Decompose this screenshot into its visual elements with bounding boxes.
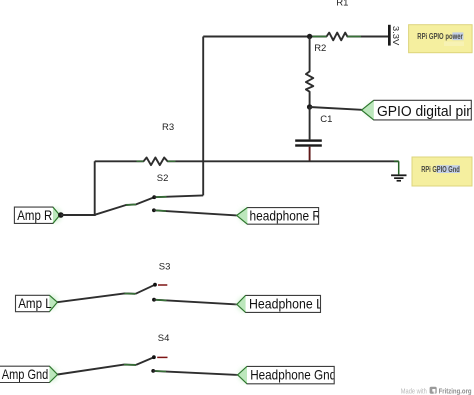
label C1 bbox=[320, 114, 332, 125]
svg-text:3.3V: 3.3V bbox=[391, 26, 401, 46]
resistor R2 bbox=[306, 37, 313, 108]
note RPi GPIO power bbox=[409, 25, 473, 53]
wire vertical mid net bbox=[202, 37, 204, 196]
wire joint green S4 lower lead bbox=[155, 370, 166, 373]
label R3 bbox=[162, 122, 174, 133]
label R2 bbox=[314, 43, 326, 54]
net flag Amp R bbox=[14, 207, 61, 223]
wire ground net horizontal with resistor R3 bbox=[95, 158, 399, 166]
svg-text:S4: S4 bbox=[158, 333, 170, 344]
wire joint green S2 lever bbox=[126, 203, 136, 206]
note RPi GPIO Gnd bbox=[412, 157, 472, 186]
wire Amp R to switch bbox=[61, 161, 95, 215]
svg-text:Headphone Gnd: Headphone Gnd bbox=[250, 368, 336, 383]
resistor R1 bbox=[310, 33, 389, 41]
power symbol 3.3V bbox=[388, 25, 401, 46]
svg-text:RPi GPIO Gnd: RPi GPIO Gnd bbox=[421, 165, 460, 174]
net flag headphone R bbox=[237, 208, 321, 225]
wire S2 upper contact to vertical net bbox=[154, 195, 203, 197]
wire Amp Gnd to switch bbox=[58, 365, 137, 375]
switch S2 bbox=[95, 195, 156, 215]
svg-text:Made with: Made with bbox=[401, 386, 427, 395]
wire to GPIO flag bbox=[310, 107, 362, 110]
junction node B bbox=[307, 104, 312, 109]
svg-text:R2: R2 bbox=[314, 43, 326, 54]
svg-text:RPi GPIO power: RPi GPIO power bbox=[417, 32, 463, 41]
svg-text:Fritzing.org: Fritzing.org bbox=[439, 386, 472, 395]
svg-text:R1: R1 bbox=[336, 0, 348, 8]
svg-text:S2: S2 bbox=[157, 173, 169, 184]
wire S3 lower contact to Headphone L bbox=[154, 300, 237, 305]
junction Amp R node bbox=[58, 212, 64, 218]
svg-text:Amp R: Amp R bbox=[17, 208, 52, 223]
wire joint green S4 lever flat bbox=[124, 364, 136, 366]
switch S4 bbox=[136, 355, 168, 372]
wire Amp L to switch bbox=[57, 293, 135, 302]
ground bbox=[391, 161, 406, 181]
watermark Made with fritzing.org bbox=[401, 386, 472, 395]
wire S2 lower contact to headphone R bbox=[154, 210, 237, 215]
svg-text:C1: C1 bbox=[320, 114, 332, 125]
wire joint green S2 lower lead bbox=[156, 209, 166, 212]
net flag Amp L bbox=[16, 295, 58, 312]
svg-text:Headphone L: Headphone L bbox=[249, 297, 323, 312]
wire top horizontal net bbox=[203, 36, 309, 38]
net flag Headphone L bbox=[237, 295, 323, 312]
wire joint green R3 left bbox=[137, 160, 144, 162]
svg-text:R3: R3 bbox=[162, 122, 174, 133]
net flag Amp Gnd bbox=[0, 366, 58, 382]
svg-text:headphone R: headphone R bbox=[250, 209, 322, 224]
net flag GPIO digital pin bbox=[362, 100, 474, 120]
svg-text:S3: S3 bbox=[159, 262, 171, 273]
wire joint green S3 lower lead bbox=[156, 299, 167, 302]
label S4 bbox=[158, 333, 170, 344]
capacitor C1 bbox=[295, 107, 322, 161]
svg-text:GPIO digital pin: GPIO digital pin bbox=[377, 103, 474, 120]
wire joint green R1 right bbox=[347, 36, 361, 38]
net flag Headphone Gnd bbox=[238, 366, 337, 383]
wire joint green S3 lever flat bbox=[125, 293, 136, 295]
junction node A bbox=[307, 34, 312, 39]
wire S4 lower contact to Headphone Gnd bbox=[153, 371, 238, 375]
wire joint green S2 upper lead bbox=[156, 196, 166, 198]
label R1 bbox=[336, 0, 348, 8]
svg-text:Amp L: Amp L bbox=[18, 296, 52, 311]
switch S3 bbox=[136, 283, 168, 302]
label S3 bbox=[159, 262, 171, 273]
wire joint green R1 left bbox=[313, 36, 327, 38]
wire joint green R3 right bbox=[168, 160, 176, 162]
svg-text:Amp Gnd: Amp Gnd bbox=[2, 367, 49, 382]
label S2 bbox=[157, 173, 169, 184]
